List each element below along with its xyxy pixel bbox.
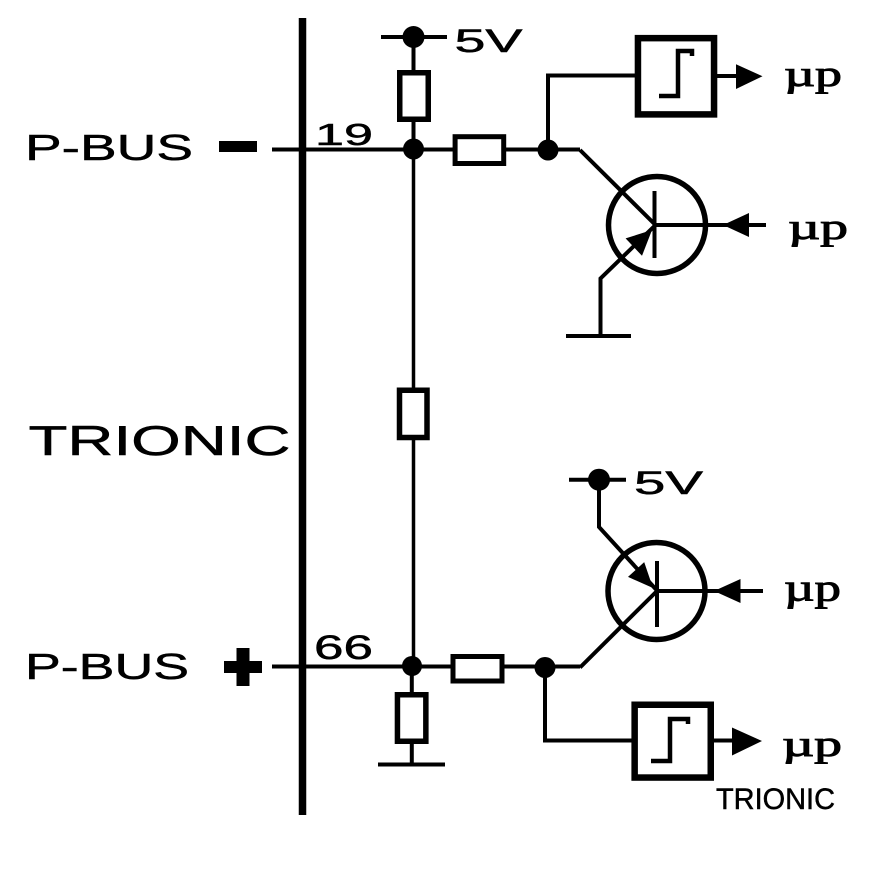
wire Q1 collector diagonal xyxy=(580,150,655,224)
svg-text:66: 66 xyxy=(314,629,373,667)
ground R4 xyxy=(378,763,445,767)
svg-text:µp: µp xyxy=(784,568,841,610)
resistor R1 pull-up xyxy=(400,73,429,120)
U2 hysteresis symbol xyxy=(651,719,688,761)
node: 5V lower junction dot xyxy=(588,469,610,491)
5V supply rail lower xyxy=(569,478,626,482)
transistor Q1 circle xyxy=(609,177,706,274)
wire pin 19 horizontal xyxy=(272,148,580,152)
resistor R3 middle xyxy=(400,390,428,437)
Q2 emitter wire from 5V xyxy=(599,480,657,591)
resistor R2 series pin19 xyxy=(455,137,504,164)
U1 output wire xyxy=(717,74,738,78)
TRIONIC module boundary bus line xyxy=(299,18,307,815)
node B junction dot xyxy=(538,140,559,161)
Q1 base input arrow xyxy=(723,213,749,237)
Q1 emitter wire xyxy=(601,226,655,334)
Q1 base wire right xyxy=(655,223,767,227)
minus polarity symbol xyxy=(219,141,257,152)
node: 5V top junction dot xyxy=(403,26,425,48)
Q1 emitter arrow xyxy=(626,230,652,256)
node C junction dot xyxy=(535,657,556,678)
transistor Q2 circle xyxy=(608,543,705,640)
5V supply rail top xyxy=(381,35,447,39)
wire node C to U2 input xyxy=(545,668,634,741)
svg-text:P-BUS: P-BUS xyxy=(25,646,189,687)
svg-text:µp: µp xyxy=(782,724,842,764)
svg-text:µp: µp xyxy=(788,207,848,247)
Schmitt trigger U2 box xyxy=(635,705,711,778)
svg-text:5V: 5V xyxy=(455,23,524,59)
wire node B to U1 input xyxy=(548,76,637,151)
wire pin 66 horizontal xyxy=(272,665,580,669)
U2 output wire xyxy=(714,739,733,743)
resistor R5 series pin66 xyxy=(453,657,502,682)
svg-text:5V: 5V xyxy=(634,465,704,501)
Q2 emitter arrow xyxy=(628,562,653,588)
ground Q1 emitter xyxy=(566,334,631,338)
node: pin66 junction dot xyxy=(402,656,422,676)
Q2 base bar xyxy=(655,561,659,627)
wire pin66 node to ground xyxy=(410,666,414,764)
node: pin19 junction dot xyxy=(403,139,424,160)
Schmitt trigger U1 box xyxy=(638,38,714,114)
U1 hysteresis symbol xyxy=(659,51,692,96)
wire Q2 collector diagonal xyxy=(580,591,657,668)
svg-text:TRIONIC: TRIONIC xyxy=(29,417,291,464)
Q2 base input arrow xyxy=(714,579,741,603)
resistor R4 pull-down xyxy=(397,695,425,742)
U2 output arrow xyxy=(732,728,762,756)
Q1 base bar xyxy=(653,191,657,258)
wire 5V rail to pin19 node xyxy=(412,37,416,149)
Q2 base wire right xyxy=(657,589,763,593)
svg-text:µp: µp xyxy=(784,54,842,94)
svg-text:19: 19 xyxy=(315,117,373,152)
U1 output arrow xyxy=(736,64,763,89)
svg-text:P-BUS: P-BUS xyxy=(25,127,193,168)
wire long vertical between nets xyxy=(412,149,416,666)
plus polarity symbol xyxy=(224,661,262,673)
svg-text:TRIONIC: TRIONIC xyxy=(716,783,835,816)
